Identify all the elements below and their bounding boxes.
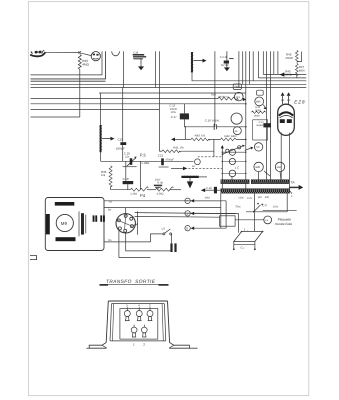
svg-text:R.38: R.38 [157,182,163,185]
svg-text:C.16: C.16 [205,119,211,123]
switch linkage dashed [198,156,223,158]
R47 resistor [297,52,302,62]
arrow node [183,167,187,171]
transformer primary winding [221,180,249,184]
svg-text:50/150: 50/150 [221,64,229,67]
tube leads down [280,132,282,179]
svg-text:22n: 22n [125,156,130,159]
6A7 node circle [195,159,201,165]
tube socket V5 [116,214,135,233]
svg-text:C21: C21 [158,153,164,157]
svg-text:400v: 400v [205,197,211,200]
wiper arrow [263,105,266,109]
wire CF right [263,210,297,212]
svg-text:6800: 6800 [231,135,237,138]
bus line y84 [31,83,307,85]
small box R44 [233,84,241,89]
bus line y103 [31,103,246,105]
svg-text:6A: 6A [192,165,195,168]
svg-text:4700pF: 4700pF [165,159,174,162]
winding end tick [290,191,292,194]
svg-text:750v: 750v [235,206,241,209]
C18 lead [125,161,127,181]
svg-text:C.C.B: C.C.B [220,56,227,59]
svg-text:1.1MΩ: 1.1MΩ [141,162,149,165]
pot P3 hatched bar [127,157,137,167]
socket wires right [133,224,137,226]
EZ80 tube [278,104,295,135]
node junction x [79,51,82,54]
box C41 [253,120,268,140]
tube bottom arc [112,51,120,55]
node circle 7 [185,198,190,203]
meter circle M2 [255,97,264,106]
svg-text:7L5: 7L5 [255,146,260,149]
wire vertical [123,51,125,87]
capacitor C38 mains [201,188,205,192]
svg-text:140v: 140v [238,197,244,200]
left mounting foot [89,343,106,349]
shield box B corner [31,51,106,79]
bus line y98 with resistor R39 [31,98,219,100]
ground arrow [199,176,207,178]
capacitor C40 to ground [220,51,234,71]
svg-text:6M5: 6M5 [256,101,261,104]
svg-text:20m: 20m [236,96,241,99]
capacitor pair C24 [93,215,95,221]
R43 loop [184,127,186,140]
tube circle 7L5 [254,143,262,151]
bus line y93 [99,92,246,94]
heater wires [222,151,246,153]
wire HT rail 1 [263,73,306,75]
svg-text:20000: 20000 [285,57,293,60]
terminal 4 [136,304,142,321]
jack J1 [91,52,100,61]
arrow from choke [102,138,110,140]
socket top pin wire [125,208,127,215]
rotary switch S1 [226,149,229,152]
wire switch column vertical [221,148,223,189]
node circle 1 [185,211,190,216]
shield box C edge [31,80,106,82]
terminal 5 [124,304,130,321]
right mounting foot [169,343,189,349]
svg-text:Cₓₓ: Cₓₓ [240,245,244,249]
choke R37 hatched [99,125,102,152]
wire bundle verticals [238,51,240,87]
wire to C19 [122,88,124,142]
tube pin circle A [231,113,242,124]
shield box A corner [31,51,103,75]
wire PU to junction [45,51,79,53]
svg-text:1500pF: 1500pF [116,147,125,150]
arrow to grid [194,60,203,62]
junction verticals [220,193,222,228]
output transformer frame [108,300,167,302]
pot wiper wire [139,161,141,189]
svg-text:L C: L C [235,165,239,169]
pot P4 hatched bar [181,176,198,178]
svg-text:C F: C F [262,203,267,207]
coil L hatched [191,52,194,72]
bus line y109 [31,108,160,110]
tube pin circle B [233,127,241,135]
voice coil [78,211,80,236]
svg-text:50000: 50000 [212,120,220,123]
svg-text:10%: 10% [171,111,177,114]
svg-text:4.5kΩ: 4.5kΩ [157,193,164,196]
cathode arrows above tube [282,96,284,104]
tube circle 6M5 [254,162,263,171]
transformer secondary winding [221,189,290,194]
mains plate 3D [234,232,263,242]
svg-text:10k: 10k [101,174,106,177]
wire speaker mid [104,207,221,209]
svg-text:4800: 4800 [299,69,305,72]
wire HT rail 2 [258,77,306,79]
svg-text:P.3: P.3 [140,153,146,158]
svg-text:1 ←: 1 ← [244,227,250,231]
svg-text:M9: M9 [61,221,68,226]
svg-text:6M5: 6M5 [255,166,260,169]
P4 resistor a [130,187,148,192]
P4 resistor b [155,187,173,191]
svg-text:110: 110 [258,196,263,199]
svg-text:112v: 112v [247,197,253,200]
mains vertical wire [253,193,255,231]
node circle 8 [185,226,190,231]
svg-text:100Ω: 100Ω [285,74,292,77]
terminal 1 [131,325,137,347]
svg-text:4MΩ: 4MΩ [82,63,89,67]
terminal 3 [147,304,153,321]
filter cap block [170,243,172,252]
wire to fuse [235,219,264,221]
voltage selector lever [254,205,261,212]
wire speaker top [104,200,221,202]
small box R46 [257,90,264,95]
arrow to 7L5 [245,148,251,150]
wires circles to transformer [231,177,233,180]
wire coil down corner [192,72,306,80]
svg-text:EZ8: EZ8 [294,99,305,104]
junction dots [245,126,247,128]
pickup connector PU [30,50,45,56]
heater pin circles column [229,149,235,155]
svg-text:R42: R42 [225,134,231,138]
capacitor pair C25 [100,215,102,221]
svg-text:8+8uF: 8+8uF [257,124,264,127]
svg-text:R41: R41 [173,146,179,150]
terminal strip [220,216,236,226]
wire vertical pair [155,51,157,87]
terminal 2 [141,325,147,347]
winding window [120,309,158,340]
svg-text:C19: C19 [118,138,124,142]
tube circle 6A6 [275,162,284,171]
svg-text:R39: R39 [211,93,216,96]
socket bottom wires [126,233,171,251]
svg-text:C.38: C.38 [206,187,212,190]
speaker HP [45,198,104,251]
arrow HT [280,72,285,76]
svg-text:220v: 220v [273,206,279,209]
wire speaker bottom [104,241,151,243]
wire vertical long [214,51,216,127]
svg-text:LS: LS [162,227,165,230]
svg-text:P4: P4 [140,193,146,198]
svg-text:C.17: C.17 [171,115,177,119]
resistor R32 [252,111,266,113]
svg-text:R35: R35 [101,170,107,174]
svg-text:murale fixée: murale fixée [275,222,293,226]
svg-text:C38: C38 [133,51,138,54]
wire bus G [31,116,80,118]
svg-text:8000: 8000 [254,114,260,117]
fuse lamp [264,216,272,224]
resistor R34 [78,55,81,70]
svg-text:R43: R43 [195,133,201,137]
capacitor C38 top [133,51,147,70]
svg-text:TRANSFO SORTIE: TRANSFO SORTIE [106,279,156,285]
svg-text:1.2kΩ: 1.2kΩ [130,192,137,195]
page edge lug [30,256,37,260]
bus line y87 [31,87,307,89]
meter circle 20m [235,92,244,101]
wire resistor down [79,69,81,117]
svg-text:220: 220 [265,196,270,199]
